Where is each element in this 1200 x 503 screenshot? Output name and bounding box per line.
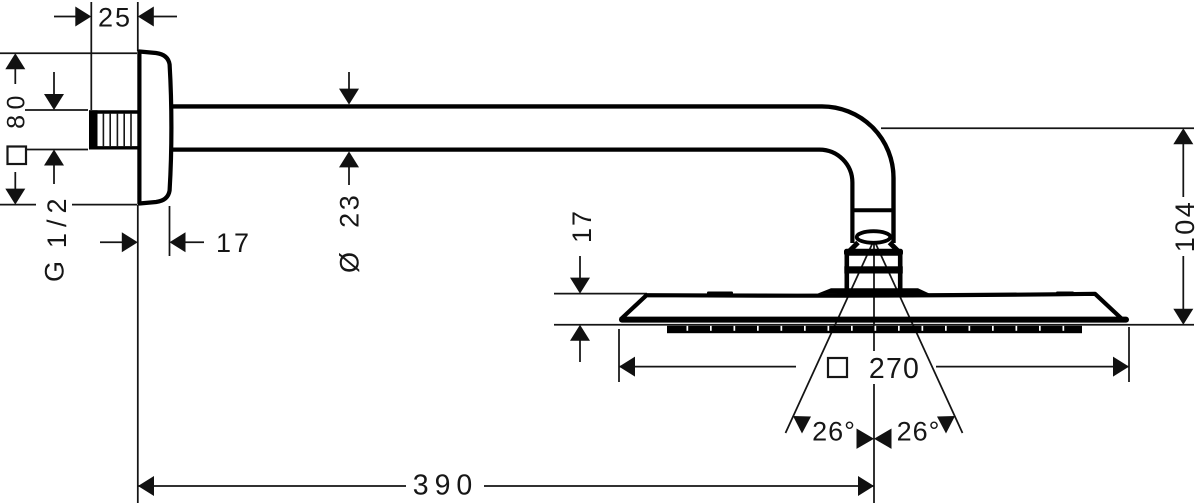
arrow angle left <box>793 416 811 434</box>
wire head bottom face line <box>554 324 1194 326</box>
svg-text:26°: 26° <box>812 417 856 447</box>
svg-text:25: 25 <box>98 3 132 33</box>
wire spray diagonal right <box>874 240 963 433</box>
arrow 25 left <box>75 7 91 27</box>
head bottom edge <box>622 317 1126 323</box>
arrow G1/2 up <box>44 150 64 166</box>
svg-text:270: 270 <box>869 353 920 385</box>
arm joint line <box>851 208 895 212</box>
svg-text:26°: 26° <box>897 417 941 447</box>
wire 390-dim line <box>138 485 874 487</box>
arrow 270 left <box>619 357 635 377</box>
svg-text:23: 23 <box>335 193 365 228</box>
svg-text:80: 80 <box>3 90 31 129</box>
svg-text:390: 390 <box>413 470 479 502</box>
arrow bowtie left <box>857 429 875 449</box>
head top tab left <box>707 292 733 296</box>
svg-text:1/2: 1/2 <box>42 193 72 249</box>
wall pipe thread left cap <box>89 110 98 149</box>
arrow angle right <box>937 416 955 434</box>
arrow dia23 up <box>339 151 359 167</box>
wall pipe thread lines <box>103 113 131 147</box>
wire 17-flange right extension <box>169 206 171 256</box>
wire dia23-dim stems <box>348 72 350 185</box>
escutcheon wall plate <box>139 52 171 204</box>
wire extension line wall left <box>90 2 92 110</box>
arrow 104 up <box>1173 128 1193 144</box>
wire extension line wall face <box>137 2 139 503</box>
arrow 17-head up <box>570 325 590 341</box>
arrow 270 right <box>1113 357 1129 377</box>
wall pipe thread bottom edge <box>89 146 140 149</box>
wire 104-dim top extension <box>881 127 1194 129</box>
arrow dia23 down <box>339 89 359 105</box>
wire G1/2-dim stems <box>53 72 55 184</box>
wire 17-flange stems <box>100 241 204 243</box>
wire 270-dim line <box>619 366 1129 368</box>
arrow G1/2 down <box>44 94 64 110</box>
wall pipe thread top edge <box>89 110 140 113</box>
svg-text:G: G <box>40 259 70 282</box>
ball joint lens <box>857 231 891 243</box>
head top tab right <box>1056 292 1074 296</box>
spray nozzle strip <box>667 326 1082 333</box>
svg-text:Ø: Ø <box>335 250 365 273</box>
shower arm inner contour <box>166 150 852 243</box>
wire 104-dim line <box>1182 143 1184 310</box>
arrow 25 right <box>138 7 154 27</box>
head boss band <box>818 288 930 294</box>
nut right wall <box>898 255 903 290</box>
nut left wall <box>844 255 849 290</box>
arrow 104 down <box>1173 309 1193 325</box>
wire G1/2 bottom extension <box>25 149 88 151</box>
svg-text:104: 104 <box>1170 200 1200 253</box>
wire spray diagonal left <box>786 240 875 433</box>
arrow 80 up <box>5 53 25 69</box>
wire 270 left extension <box>618 329 620 382</box>
nut middle band <box>844 266 903 273</box>
wire 17-head stems <box>579 256 581 362</box>
arrow bowtie right <box>874 429 892 449</box>
wire 80-dim top extension <box>0 52 137 54</box>
wire 80-dim stems <box>14 68 16 190</box>
arrow 80 down <box>5 189 25 205</box>
wire 25-dim stems <box>54 16 177 18</box>
svg-text:17: 17 <box>216 228 252 258</box>
wire 17-head top extension <box>554 293 647 295</box>
shower arm outer contour <box>166 106 894 243</box>
arrow 17-head down <box>570 278 590 294</box>
arrow 390 right <box>858 476 874 496</box>
svg-text:17: 17 <box>567 209 597 243</box>
cone trumpet left <box>848 243 858 253</box>
wire 80-dim bottom extension <box>0 204 137 206</box>
dimension square symbol 80 <box>8 147 27 165</box>
wire 270 right extension <box>1128 327 1130 382</box>
dimension square symbol 270 <box>828 358 847 377</box>
arrow 390 left <box>138 476 154 496</box>
head top edge <box>621 294 1123 320</box>
wire G1/2 top extension <box>25 109 88 111</box>
node center axis line <box>873 234 875 503</box>
arrow 17-flange right <box>170 232 186 252</box>
arrow 17-flange left <box>122 232 138 252</box>
cone trumpet right <box>890 243 900 253</box>
nut top band <box>844 249 903 256</box>
